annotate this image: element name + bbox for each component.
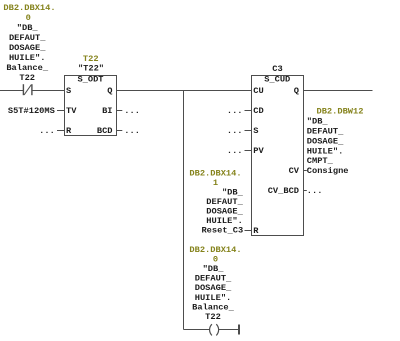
wire: right rail end tick: [238, 325, 240, 335]
wire: coil rung left: [184, 329, 210, 331]
node: timer name T22: [78, 54, 104, 74]
svg-text:DOSAGE_: DOSAGE_: [206, 207, 243, 217]
wire: BI output stub: [117, 110, 123, 112]
svg-text:CMPT_: CMPT_: [307, 156, 334, 166]
svg-text:...: ...: [227, 126, 243, 136]
wire: left power rail segment to contact: [0, 90, 23, 92]
svg-text:...: ...: [124, 106, 140, 116]
svg-text:HUILE".: HUILE".: [195, 293, 232, 303]
svg-text:DEFAUT_: DEFAUT_: [9, 33, 46, 43]
op-amp U1: timer block labels S_ODT: [66, 75, 113, 137]
svg-text:"DB_: "DB_: [222, 188, 244, 198]
svg-text:"T22": "T22": [78, 64, 104, 74]
svg-text:0: 0: [213, 255, 218, 265]
svg-text:Q: Q: [107, 86, 112, 96]
svg-text:1: 1: [213, 178, 218, 188]
wire: R input stub (timer): [57, 130, 65, 132]
svg-text:...: ...: [227, 146, 243, 156]
svg-text:CV_BCD: CV_BCD: [268, 186, 299, 196]
svg-text:C3: C3: [272, 64, 282, 74]
svg-text:BI: BI: [102, 106, 112, 116]
svg-text:DB2.DBX14.: DB2.DBX14.: [3, 3, 55, 13]
svg-text:CD: CD: [253, 106, 263, 116]
svg-text:CU: CU: [253, 86, 263, 96]
svg-text:DOSAGE_: DOSAGE_: [195, 283, 232, 293]
svg-text:S5T#120MS: S5T#120MS: [8, 106, 55, 116]
svg-text:S: S: [66, 86, 71, 96]
svg-text:PV: PV: [253, 146, 264, 156]
wire: R input stub (counter): [245, 230, 252, 232]
wire: PV input stub: [245, 150, 252, 152]
wire: S input stub (counter): [245, 130, 252, 132]
svg-text:DEFAUT_: DEFAUT_: [307, 127, 344, 137]
svg-text:"DB_: "DB_: [203, 264, 225, 274]
svg-text:Balance_: Balance_: [6, 63, 48, 73]
node: operand label DB2.DBW12 CMPT_Consigne (CV output): [307, 107, 364, 176]
wire: timer Q output to counter CU: [117, 90, 252, 92]
svg-text:"DB_: "DB_: [307, 117, 329, 127]
svg-text:DOSAGE_: DOSAGE_: [9, 43, 46, 53]
wire: CV_BCD output stub: [304, 190, 307, 192]
counter block labels S_CUD: [253, 75, 299, 237]
wire: branch vertical to coil rung: [183, 91, 185, 330]
wire: contact to timer S input: [32, 90, 65, 92]
svg-text:HUILE".: HUILE".: [307, 146, 344, 156]
svg-text:DEFAUT_: DEFAUT_: [195, 274, 232, 284]
node: operand label DB2.DBX14.1 Reset_C3 (counter R input): [189, 169, 243, 236]
svg-text:S_CUD: S_CUD: [264, 75, 290, 85]
svg-text:TV: TV: [66, 106, 77, 116]
counter C3 box S_CUD: [252, 76, 304, 236]
svg-text:CV: CV: [289, 166, 300, 176]
svg-text:...: ...: [124, 126, 140, 136]
contact (NC) Balance_T22: [22, 84, 24, 95]
svg-text:BCD: BCD: [97, 126, 113, 136]
svg-text:DOSAGE_: DOSAGE_: [307, 136, 344, 146]
svg-text:HUILE".: HUILE".: [9, 53, 46, 63]
node: operand label DB2.DBX14.0 Balance_T22 (NC contact): [3, 3, 55, 83]
node: operand label DB2.DBX14.0 Balance_T22 (coil): [189, 245, 241, 322]
wire: BCD output stub: [117, 130, 123, 132]
svg-text:...: ...: [227, 106, 243, 116]
svg-text:DEFAUT_: DEFAUT_: [206, 197, 243, 207]
wire: coil rung right: [219, 329, 239, 331]
svg-text:T22: T22: [83, 54, 99, 64]
svg-text:...: ...: [39, 126, 55, 136]
svg-text:HUILE".: HUILE".: [206, 216, 243, 226]
svg-text:Q: Q: [294, 86, 299, 96]
svg-text:R: R: [66, 126, 72, 136]
svg-text:DB2.DBX14.: DB2.DBX14.: [189, 245, 241, 255]
timer U1 box S_ODT T22: [65, 76, 117, 136]
svg-text:DB2.DBW12: DB2.DBW12: [317, 107, 364, 117]
svg-text:T22: T22: [205, 312, 221, 322]
svg-text:...: ...: [307, 186, 323, 196]
svg-text:T22: T22: [19, 73, 35, 83]
svg-text:R: R: [253, 226, 259, 236]
svg-text:"DB_: "DB_: [17, 23, 39, 33]
wire: CD input stub: [245, 110, 252, 112]
svg-text:Consigne: Consigne: [307, 166, 349, 176]
coil Balance_T22: [210, 324, 212, 335]
wire: counter Q output to right: [304, 90, 373, 92]
svg-text:Balance_: Balance_: [192, 302, 234, 312]
svg-text:Reset_C3: Reset_C3: [201, 226, 243, 236]
svg-text:S_ODT: S_ODT: [77, 75, 103, 85]
svg-text:DB2.DBX14.: DB2.DBX14.: [189, 169, 241, 179]
svg-text:S: S: [253, 126, 258, 136]
wire: CV output stub: [304, 170, 307, 172]
wire: TV input stub: [57, 110, 65, 112]
svg-text:0: 0: [26, 13, 31, 23]
